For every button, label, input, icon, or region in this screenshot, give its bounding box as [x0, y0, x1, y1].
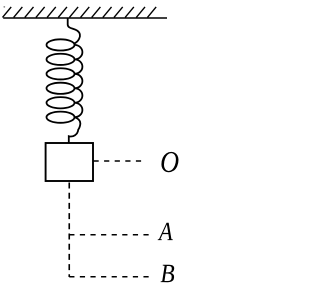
block (mass)	[46, 143, 93, 181]
vertical dashed line	[68, 183, 70, 278]
spring coil loop 5	[47, 97, 75, 108]
label B	[161, 265, 175, 282]
spring coil loop 6	[47, 112, 75, 123]
spring coil loop 4	[47, 83, 75, 94]
spring coil loop 3	[47, 68, 75, 79]
label A	[158, 223, 173, 240]
ceiling line	[3, 17, 167, 19]
label O	[161, 152, 178, 172]
spring connector 2-3	[75, 59, 83, 73]
spring coil loop 2	[47, 54, 75, 65]
ceiling hatching	[3, 7, 157, 18]
spring bottom hook	[69, 117, 81, 142]
spring coil loop 1	[47, 39, 75, 50]
spring connector 3-4	[75, 74, 83, 88]
spring top hook	[68, 18, 80, 44]
spring connector 1-2	[75, 45, 83, 59]
spring connector 4-5	[75, 88, 83, 102]
stray dot	[3, 6, 5, 8]
dashed line to A	[69, 234, 153, 236]
dashed line to O	[94, 160, 146, 162]
spring connector 5-6	[75, 103, 83, 117]
dashed line to B	[69, 276, 154, 278]
